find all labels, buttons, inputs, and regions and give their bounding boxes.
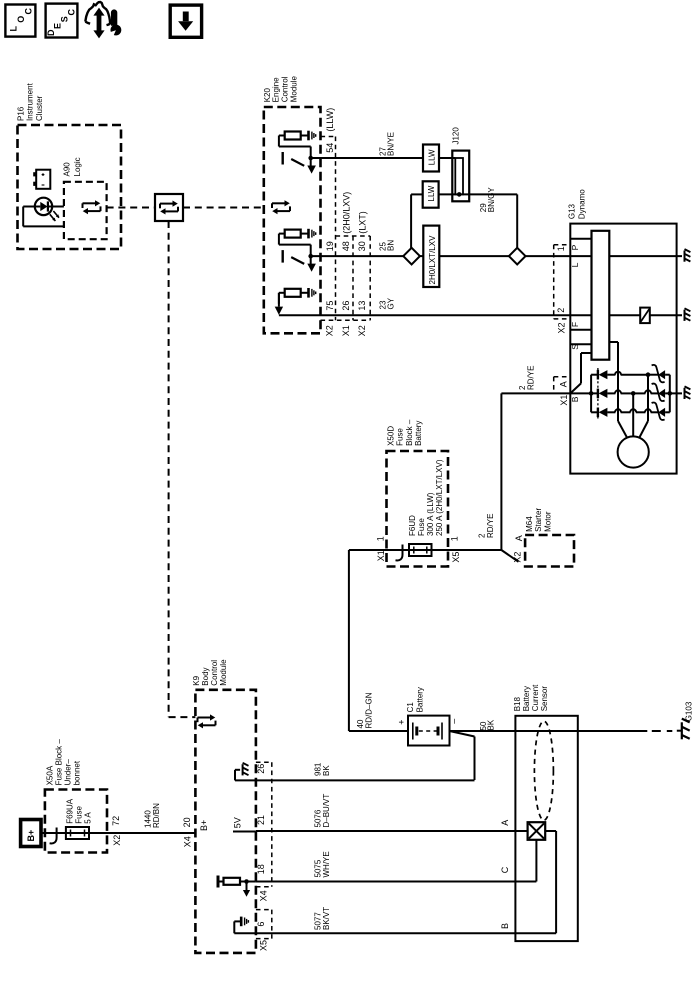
svg-text:RD/D–GN: RD/D–GN (364, 692, 373, 728)
svg-text:48: 48 (341, 241, 351, 251)
svg-text:L: L (9, 26, 19, 32)
svg-text:B18: B18 (513, 697, 522, 712)
svg-text:X2: X2 (112, 835, 122, 846)
svg-text:X2: X2 (357, 325, 367, 336)
svg-text:–: – (448, 719, 458, 724)
svg-text:Fuse Block –: Fuse Block – (55, 739, 64, 786)
svg-text:B+: B+ (26, 830, 36, 842)
svg-text:S: S (570, 344, 580, 350)
svg-text:Fuse: Fuse (417, 518, 426, 536)
svg-text:75: 75 (325, 301, 335, 311)
svg-text:1: 1 (450, 536, 460, 541)
svg-text:(2H0/LXV): (2H0/LXV) (342, 192, 352, 234)
svg-text:X2: X2 (513, 552, 523, 563)
svg-text:X2: X2 (325, 325, 335, 336)
svg-text:Control: Control (281, 76, 290, 102)
svg-text:Body: Body (201, 667, 210, 685)
svg-text:Under–: Under– (63, 759, 72, 786)
svg-text:1: 1 (556, 246, 566, 251)
svg-text:RD/YE: RD/YE (486, 514, 495, 538)
svg-text:Module: Module (219, 659, 228, 686)
svg-text:30: 30 (357, 241, 367, 251)
svg-text:D–BU/VT: D–BU/VT (322, 794, 331, 828)
svg-text:C: C (24, 8, 34, 15)
svg-text:(LLW): (LLW) (325, 108, 335, 132)
svg-text:B+: B+ (199, 820, 209, 831)
svg-text:P: P (570, 244, 580, 250)
svg-text:LLW: LLW (427, 185, 436, 201)
svg-text:GY: GY (387, 297, 396, 309)
svg-text:Motor: Motor (543, 511, 552, 532)
svg-text:X2: X2 (557, 322, 567, 333)
svg-text:6: 6 (256, 922, 266, 927)
svg-text:BK/VT: BK/VT (322, 907, 331, 930)
svg-text:Cluster: Cluster (35, 95, 44, 121)
svg-text:C1: C1 (406, 702, 415, 713)
svg-text:bonnet: bonnet (72, 760, 81, 785)
svg-text:G103: G103 (684, 701, 693, 721)
svg-text:X1: X1 (559, 395, 569, 406)
svg-text:A: A (500, 820, 510, 826)
svg-text:X50A: X50A (46, 765, 55, 785)
svg-text:26: 26 (341, 301, 351, 311)
svg-text:Dynamo: Dynamo (578, 189, 587, 219)
svg-text:F6UD: F6UD (408, 515, 417, 536)
svg-text:D: D (46, 29, 56, 36)
svg-text:Instrument: Instrument (26, 82, 35, 121)
svg-text:2H0/LXT/LXV: 2H0/LXT/LXV (428, 235, 437, 285)
svg-text:Engine: Engine (272, 77, 281, 102)
svg-text:O: O (16, 16, 26, 23)
svg-text:A90: A90 (63, 162, 72, 177)
svg-text:26: 26 (256, 764, 266, 774)
svg-text:BK: BK (487, 719, 496, 730)
svg-text:B: B (570, 396, 580, 402)
svg-text:Fuse: Fuse (396, 428, 405, 446)
svg-text:5 A: 5 A (84, 812, 93, 824)
svg-text:LLW: LLW (428, 149, 437, 165)
svg-text:A: A (514, 535, 524, 541)
svg-text:RD/YE: RD/YE (526, 366, 535, 390)
svg-text:X50D: X50D (387, 426, 396, 446)
svg-text:18: 18 (256, 864, 266, 874)
svg-text:F69UA: F69UA (65, 798, 74, 824)
svg-text:X5: X5 (451, 552, 461, 563)
svg-text:BN/YE: BN/YE (387, 132, 396, 156)
svg-text:L: L (570, 262, 580, 267)
svg-text:Sensor: Sensor (540, 686, 549, 712)
svg-text:X1: X1 (341, 325, 351, 336)
svg-text:+: + (396, 719, 406, 724)
svg-text:K20: K20 (263, 88, 272, 103)
svg-text:X1: X1 (376, 550, 386, 561)
svg-text:1440: 1440 (143, 810, 152, 828)
svg-text:5V: 5V (232, 817, 242, 828)
svg-text:C: C (67, 9, 77, 16)
svg-text:X4: X4 (182, 836, 192, 847)
svg-text:BN: BN (387, 240, 396, 251)
svg-text:13: 13 (357, 301, 367, 311)
svg-text:F: F (570, 322, 580, 327)
svg-text:21: 21 (256, 815, 266, 825)
svg-text:B: B (500, 923, 510, 929)
svg-text:RD/BN: RD/BN (152, 803, 161, 828)
svg-text:BK: BK (322, 765, 331, 776)
svg-text:X4: X4 (258, 890, 268, 901)
svg-text:WH/YE: WH/YE (322, 851, 331, 877)
svg-text:20: 20 (182, 817, 192, 827)
svg-text:1: 1 (375, 536, 385, 541)
svg-text:250 A (2H0/LXT/LXV): 250 A (2H0/LXT/LXV) (435, 459, 444, 536)
svg-text:Starter: Starter (534, 508, 543, 532)
svg-text:Module: Module (290, 76, 299, 103)
svg-text:E: E (53, 23, 63, 29)
svg-text:M64: M64 (525, 516, 534, 532)
svg-text:J120: J120 (452, 127, 461, 145)
svg-text:Battery: Battery (416, 687, 425, 712)
svg-text:Block –: Block – (405, 419, 414, 446)
svg-text:Logic: Logic (73, 157, 82, 176)
svg-text:S: S (60, 16, 70, 22)
svg-text:Fuse: Fuse (74, 805, 83, 823)
svg-text:X5: X5 (258, 940, 268, 951)
svg-text:Current: Current (531, 684, 540, 711)
svg-text:G13: G13 (568, 203, 577, 219)
svg-text:A: A (559, 381, 569, 387)
svg-text:P16: P16 (16, 106, 25, 121)
svg-text:(LXT): (LXT) (358, 211, 368, 234)
svg-text:Battery: Battery (414, 421, 423, 446)
svg-text:19: 19 (325, 241, 335, 251)
svg-text:300 A (LLW): 300 A (LLW) (426, 492, 435, 536)
svg-text:BN/GY: BN/GY (487, 187, 496, 213)
svg-text:2: 2 (556, 308, 566, 313)
svg-text:72: 72 (111, 816, 121, 826)
svg-text:C: C (500, 866, 510, 873)
svg-text:Control: Control (210, 660, 219, 686)
svg-text:54: 54 (325, 143, 335, 153)
svg-text:K9: K9 (192, 675, 201, 685)
svg-text:Battery: Battery (522, 686, 531, 711)
